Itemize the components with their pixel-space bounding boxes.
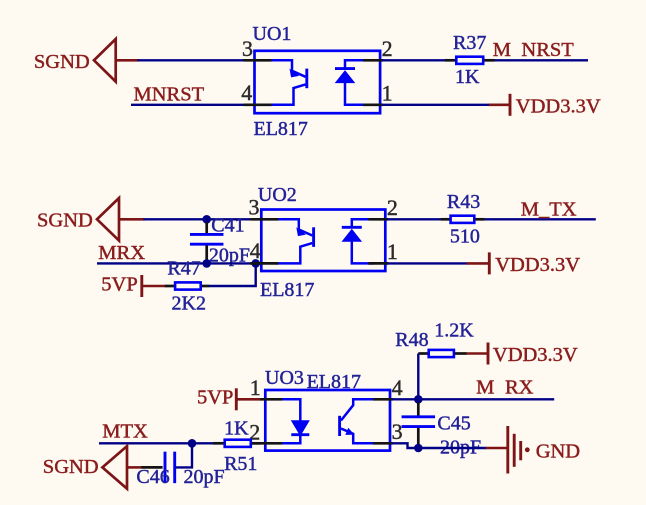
wire SGND to UO1 pin 3: [138, 59, 247, 61]
optocoupler UO2 pin 1 stub: [368, 262, 388, 265]
svg-text:C45: C45: [437, 412, 470, 434]
optocoupler UO2 LED anode lead (pin bottom): [352, 241, 374, 264]
optocoupler UO2 LED cathode lead (pin top): [352, 219, 374, 227]
capacitor C45 top lead: [417, 402, 420, 415]
optocoupler UO2 body box: [261, 210, 385, 272]
optocoupler UO1 LED triangle: [335, 70, 356, 83]
svg-text:EL817: EL817: [307, 371, 361, 393]
svg-text:R47: R47: [167, 257, 200, 279]
optocoupler UO3 LED anode lead (pin top): [280, 399, 300, 420]
optocoupler UO1 pin 4 stub: [244, 103, 272, 106]
optocoupler UO3 LED cathode lead (pin bottom): [280, 435, 300, 444]
optocoupler UO1 body box: [255, 51, 381, 113]
power symbol VDD3.3V (row 2): [488, 252, 491, 274]
svg-text:R43: R43: [447, 191, 480, 213]
optocoupler UO1 LED cathode bar: [335, 67, 355, 70]
optocoupler UO2 phototransistor collector: [276, 219, 312, 235]
resistor R37 body: [456, 57, 483, 64]
optocoupler UO3 LED cathode bar: [291, 433, 309, 436]
optocoupler UO3 pin 4 stub: [373, 398, 393, 401]
optocoupler UO2 phototransistor base bar: [312, 227, 315, 247]
capacitor C46 right lead / wire to MTX junction: [176, 443, 192, 467]
svg-text:NRST: NRST: [521, 39, 574, 61]
wire MNRST to UO1 pin 4: [131, 104, 246, 106]
svg-text:3: 3: [392, 419, 403, 444]
svg-text:UO3: UO3: [265, 367, 304, 389]
optocoupler UO2 LED cathode bar: [342, 226, 362, 229]
wire SGND stub (red) row 1: [116, 59, 139, 62]
svg-text:3: 3: [242, 36, 253, 61]
wire R37 to net M_NRST: [495, 59, 589, 61]
junction dot C45 bottom: [414, 444, 423, 453]
junction dot R47 branch: [251, 259, 260, 268]
capacitor C41 plates: [190, 233, 224, 236]
wire UO2 pin 2 to R43: [387, 218, 442, 220]
resistor R47 body: [175, 282, 201, 289]
optocoupler UO2 phototransistor arrow: [296, 227, 306, 236]
resistor R48 body: [429, 350, 454, 357]
resistor R43 right lead: [475, 218, 484, 221]
svg-text:UO2: UO2: [258, 184, 297, 206]
power symbol VDD3.3V (row 3): [487, 343, 490, 365]
svg-text:1: 1: [382, 80, 393, 105]
svg-text:MTX: MTX: [102, 421, 148, 443]
optocoupler UO1 LED cathode lead (pin top): [345, 60, 367, 69]
optocoupler UO3 phototransistor arrow: [345, 428, 354, 435]
svg-text:RX: RX: [505, 377, 534, 399]
wire UO3 pin 4 to net M_RX: [392, 398, 554, 400]
svg-text:2K2: 2K2: [172, 293, 206, 315]
resistor R47 right lead: [202, 285, 209, 288]
optocoupler UO1 pin 1 stub: [363, 103, 383, 106]
svg-text:R51: R51: [224, 453, 257, 475]
wire UO2 pin 1 to VDD3.3V: [387, 262, 468, 264]
optocoupler UO3 LED triangle: [291, 420, 310, 436]
power symbol GND wire (red): [486, 447, 508, 450]
resistor R43 body: [451, 216, 475, 223]
optocoupler UO3 phototransistor emitter: [341, 429, 375, 444]
optocoupler UO1 LED anode lead (pin bottom): [345, 82, 367, 105]
junction dot C41 top: [202, 215, 211, 224]
capacitor C45 plates: [402, 415, 436, 418]
svg-text:EL817: EL817: [260, 279, 314, 301]
wire MTX to R51: [99, 442, 214, 444]
optocoupler UO1 pin 3 stub: [244, 59, 272, 62]
resistor R51 right lead: [252, 442, 260, 445]
capacitor C45 bottom lead: [417, 428, 420, 446]
svg-text:510: 510: [450, 226, 480, 248]
wire R43 to net M_TX: [485, 218, 596, 220]
svg-text:VDD3.3V: VDD3.3V: [516, 96, 601, 118]
resistor R37 right lead: [484, 59, 495, 62]
svg-text:4: 4: [250, 238, 261, 263]
svg-text:VDD3.3V: VDD3.3V: [495, 254, 580, 276]
wire SGND stub (red) row 3: [127, 466, 142, 469]
power symbol 5VP (row 2): [140, 275, 143, 297]
wire R47 to MRX net: [209, 263, 256, 286]
junction dot M_RX/R48/C45: [414, 395, 423, 404]
svg-text:1: 1: [250, 375, 261, 400]
wire MRX to UO2 pin 4: [97, 262, 256, 264]
svg-text:1K: 1K: [224, 418, 249, 440]
svg-text:20pF: 20pF: [184, 466, 225, 488]
resistor R43 left lead: [441, 218, 450, 221]
resistor R51 left lead: [213, 442, 224, 445]
svg-text:R48: R48: [395, 329, 428, 351]
power symbol VDD3.3V (row 1): [509, 94, 512, 116]
wire UO1 pin 2 to R37: [382, 59, 446, 61]
svg-text:SGND: SGND: [37, 209, 93, 231]
optocoupler UO2 phototransistor emitter: [276, 243, 312, 263]
optocoupler UO3 pin 3 stub: [373, 442, 393, 445]
svg-text:1.2K: 1.2K: [434, 319, 474, 341]
resistor R48 right lead: [455, 352, 467, 355]
resistor R47 left lead: [165, 285, 174, 288]
junction dot MTX/C46: [188, 439, 197, 448]
power symbol SGND (row 2): [97, 198, 119, 241]
svg-text:EL817: EL817: [254, 118, 308, 140]
svg-text:5VP: 5VP: [197, 386, 233, 408]
svg-text:M_TX: M_TX: [521, 198, 577, 220]
optocoupler UO3 phototransistor collector: [341, 399, 375, 420]
optocoupler UO2 pin 4 stub: [250, 262, 278, 265]
svg-text:SGND: SGND: [43, 456, 99, 478]
svg-text:C41: C41: [211, 215, 244, 237]
wire SGND to UO2 pin 3: [143, 218, 252, 220]
power symbol SGND (row 3): [102, 446, 127, 489]
svg-text:MNRST: MNRST: [134, 83, 205, 105]
svg-text:C46: C46: [136, 466, 169, 488]
optocoupler UO1 phototransistor base bar: [305, 69, 308, 89]
capacitor C41 top lead: [205, 222, 208, 233]
svg-text:GND: GND: [536, 441, 580, 463]
resistor R37 left lead: [445, 59, 455, 62]
power symbol GND bar 3: [519, 441, 522, 460]
optocoupler UO1 phototransistor arrow: [290, 69, 300, 78]
optocoupler UO1 pin 2 stub: [363, 59, 383, 62]
svg-text:4: 4: [392, 375, 403, 400]
svg-text:1: 1: [387, 239, 398, 264]
svg-text:3: 3: [249, 194, 260, 219]
power symbol SGND (row 1): [94, 39, 116, 82]
power symbol 5VP (row 3): [235, 388, 238, 410]
svg-text:UO1: UO1: [253, 23, 292, 45]
optocoupler UO1 phototransistor emitter: [270, 84, 306, 104]
resistor R48 left lead: [418, 352, 427, 355]
capacitor C41 bottom lead: [205, 245, 208, 261]
svg-text:M: M: [476, 377, 494, 399]
capacitor C46 plates: [164, 452, 167, 484]
wire SGND stub (red) row 2: [119, 218, 144, 221]
optocoupler UO1 phototransistor collector: [270, 60, 306, 77]
optocoupler UO3 pin 2 stub: [250, 442, 282, 445]
wire UO3 pin 3 to GND: [392, 443, 487, 448]
svg-text:M: M: [493, 39, 511, 61]
power symbol GND bar 2: [513, 434, 516, 467]
power symbol GND dot: [525, 447, 530, 452]
optocoupler UO2 pin 2 stub: [368, 218, 388, 221]
wire R48 to M_RX junction: [417, 354, 419, 400]
optocoupler UO3 body box: [265, 390, 390, 451]
svg-text:R37: R37: [453, 32, 486, 54]
svg-text:MRX: MRX: [98, 242, 145, 264]
power symbol GND bar 1: [506, 426, 509, 474]
svg-text:4: 4: [241, 80, 252, 105]
svg-text:5VP: 5VP: [101, 274, 137, 296]
optocoupler UO2 pin 3 stub: [250, 218, 278, 221]
junction dot C41 bottom: [202, 259, 211, 268]
svg-text:VDD3.3V: VDD3.3V: [493, 344, 578, 366]
optocoupler UO3 phototransistor base bar: [338, 416, 341, 436]
optocoupler UO3 pin 1 stub: [260, 398, 282, 401]
svg-text:2: 2: [382, 36, 393, 61]
capacitor C46 left lead: [141, 466, 162, 469]
svg-text:2: 2: [387, 195, 398, 220]
svg-text:1K: 1K: [455, 66, 480, 88]
wire UO1 pin 1 to VDD3.3V: [382, 104, 490, 106]
svg-text:SGND: SGND: [34, 51, 90, 73]
optocoupler UO2 LED triangle: [342, 229, 363, 242]
resistor R51 body: [225, 440, 251, 447]
